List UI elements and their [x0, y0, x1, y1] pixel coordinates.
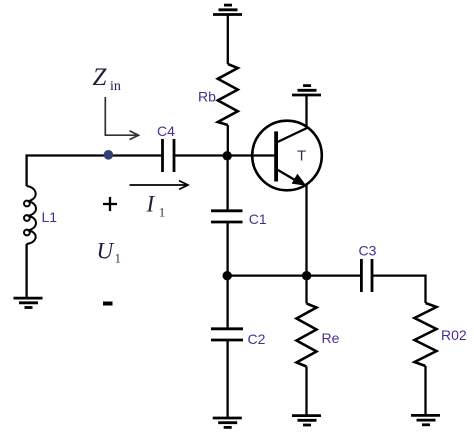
capacitor C1	[211, 211, 243, 222]
wire: ground to collector	[305, 95, 307, 129]
wire: node to C1	[226, 156, 228, 211]
label minus	[103, 302, 113, 306]
wire: emitter down to node	[305, 185, 307, 276]
arrow: I1 current	[130, 181, 189, 190]
ground (below C2)	[213, 418, 242, 427]
svg-text:U: U	[97, 238, 115, 263]
capacitor C3	[361, 259, 372, 292]
svg-text:T: T	[297, 148, 306, 165]
transistor emitter arrowhead	[292, 174, 307, 186]
wire: R02 to ground	[424, 366, 426, 415]
ground (below R02)	[411, 415, 440, 424]
transistor emitter diagonal	[278, 170, 301, 183]
label plus	[103, 197, 117, 211]
svg-text:Rb: Rb	[198, 89, 216, 105]
transistor base bar	[274, 131, 278, 181]
svg-text:Re: Re	[322, 330, 340, 346]
wire: C3 to R02 corner	[372, 276, 426, 303]
wire: emitter node row to C3	[228, 274, 362, 276]
wire: Rb to base node	[227, 125, 229, 157]
svg-text:1: 1	[115, 251, 122, 266]
svg-text:C2: C2	[248, 331, 266, 347]
wire: C2 to ground	[226, 340, 228, 418]
wire: left vertical down to L1	[25, 154, 27, 186]
wire: node to C2	[226, 276, 228, 329]
svg-text:C4: C4	[157, 123, 175, 139]
wire: top ground to Rb	[227, 15, 229, 65]
arrow: Z_in elbow	[105, 97, 138, 140]
resistor Rb	[218, 64, 238, 125]
svg-text:C1: C1	[249, 211, 267, 227]
transistor collector diagonal	[278, 128, 308, 142]
svg-text:1: 1	[159, 205, 166, 220]
wire: C1 to emitter node row	[226, 222, 228, 276]
capacitor C4	[163, 139, 175, 172]
wire: input horizontal left segment	[27, 154, 163, 156]
svg-text:I: I	[146, 192, 156, 217]
svg-text:in: in	[110, 79, 121, 94]
ground (below Re)	[292, 416, 321, 425]
node input (blue)	[104, 150, 114, 160]
ground (above transistor collector)	[292, 86, 321, 95]
wire: L1 to ground	[25, 244, 27, 298]
wire: Re to ground	[305, 367, 307, 416]
node junction at Rb/C1	[223, 151, 232, 160]
ground (top, above Rb)	[213, 5, 242, 14]
inductor L1	[24, 186, 36, 244]
wire: C4 to base bar	[174, 154, 274, 156]
resistor Re	[297, 304, 317, 367]
resistor R02	[415, 303, 437, 366]
svg-text:R02: R02	[441, 327, 467, 343]
svg-text:Z: Z	[93, 64, 108, 91]
wire: node to Re	[305, 276, 307, 304]
node junction C1/C2	[223, 271, 232, 280]
node junction emitter/Re	[302, 271, 311, 280]
svg-text:L1: L1	[42, 209, 58, 225]
capacitor C2	[211, 329, 243, 340]
ground (below L1)	[14, 298, 43, 307]
transistor base wire inside circle	[250, 154, 274, 156]
transistor T	[252, 121, 322, 191]
svg-text:C3: C3	[359, 243, 377, 259]
